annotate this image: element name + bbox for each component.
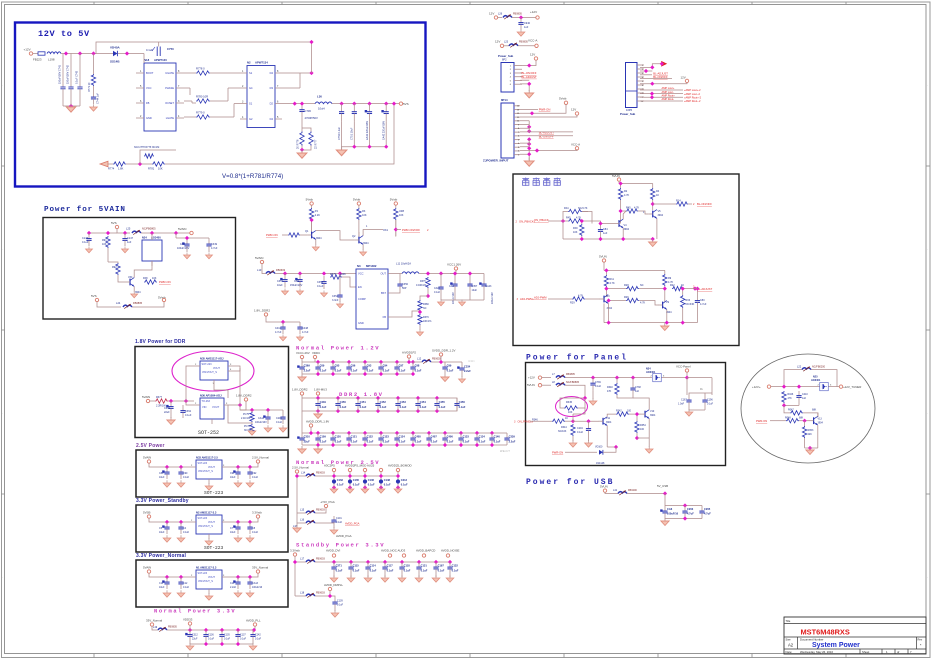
capacitor CA13 bbox=[247, 577, 252, 589]
pin bbox=[394, 202, 397, 205]
wire bbox=[297, 522, 306, 524]
svg-text:3.3V Power_Standby: 3.3V Power_Standby bbox=[136, 498, 189, 504]
junction bbox=[179, 575, 183, 579]
wire bbox=[221, 641, 223, 644]
svg-text:PA4: PA4 bbox=[564, 207, 569, 210]
diode VD40A bbox=[113, 51, 117, 56]
svg-text:CA1: CA1 bbox=[449, 285, 454, 288]
ground Q1 bbox=[312, 245, 319, 251]
ground C99 bbox=[441, 374, 449, 381]
svg-text:4.7uF: 4.7uF bbox=[700, 303, 707, 306]
regulator N36 AP1084-ADJ bbox=[200, 398, 224, 419]
inductor L36 bbox=[315, 102, 332, 104]
wire bbox=[427, 288, 429, 296]
ground 2.5V cap 381 bbox=[377, 486, 385, 493]
junction bbox=[332, 485, 336, 489]
ground C12 bbox=[177, 590, 185, 597]
svg-text:PWR-ON/OFF: PWR-ON/OFF bbox=[402, 228, 420, 232]
svg-text:L23: L23 bbox=[504, 41, 509, 44]
wire bbox=[688, 203, 692, 205]
svg-text:«AMP Rout+-2: «AMP Rout+-2 bbox=[684, 96, 702, 100]
wire bbox=[483, 292, 485, 300]
svg-text:PWR-ON: PWR-ON bbox=[756, 419, 767, 423]
junction bbox=[650, 65, 654, 69]
svg-text:Normal Power 3.3V: Normal Power 3.3V bbox=[154, 609, 236, 615]
svg-text:10uF: 10uF bbox=[277, 284, 283, 287]
capacitor C741 bbox=[60, 54, 65, 107]
svg-text:NC: NC bbox=[423, 307, 427, 310]
svg-text:1uF: 1uF bbox=[802, 397, 807, 400]
resistor PC75 bbox=[250, 412, 254, 422]
svg-text:C99: C99 bbox=[447, 363, 452, 367]
wire to R14 bbox=[653, 203, 676, 205]
pin bbox=[603, 489, 606, 492]
wire tuner mid rail bbox=[784, 404, 799, 406]
svg-text:5V_USB: 5V_USB bbox=[657, 484, 668, 488]
capacitor C92 bbox=[247, 467, 252, 479]
IC N2 pin 1 S1 bbox=[240, 72, 247, 74]
wire jog bbox=[192, 102, 196, 104]
wire bbox=[418, 574, 420, 577]
wire bbox=[350, 574, 352, 577]
capacitor C98 bbox=[410, 362, 415, 374]
section title char 制 bbox=[554, 178, 561, 186]
svg-text:22uF: 22uF bbox=[304, 439, 310, 443]
svg-text:UR8: UR8 bbox=[399, 210, 405, 213]
wire r345 top bbox=[560, 398, 585, 408]
frame zone tick left bbox=[2, 329, 5, 331]
junction bbox=[356, 396, 360, 400]
wire r047 out bbox=[803, 413, 818, 417]
ground CA5 bbox=[297, 289, 304, 295]
frame zone tick bottom bbox=[187, 654, 189, 658]
svg-text:C200: C200 bbox=[276, 417, 282, 420]
highlight ellipse tuner switch bbox=[741, 354, 875, 463]
capacitor C12 bbox=[178, 577, 183, 589]
resistor R379 bbox=[330, 275, 342, 279]
frame zone tick bottom bbox=[845, 654, 847, 658]
svg-text:FB: FB bbox=[146, 101, 150, 105]
junction bbox=[91, 51, 95, 55]
wire ldo out bbox=[228, 518, 258, 522]
junction bbox=[635, 436, 639, 440]
svg-text:C84: C84 bbox=[603, 228, 608, 231]
wire n34 out bbox=[662, 377, 687, 379]
svg-text:4.7uF: 4.7uF bbox=[275, 331, 282, 334]
junction bbox=[439, 271, 443, 275]
ground N33 bbox=[205, 483, 213, 490]
svg-text:AVDD_DVI: AVDD_DVI bbox=[326, 549, 340, 553]
svg-text:R354: R354 bbox=[640, 424, 646, 427]
capacitor C271 bbox=[331, 562, 336, 574]
wire svdd pin bbox=[440, 356, 442, 362]
svg-text:PA5: PA5 bbox=[566, 217, 571, 220]
wire bbox=[652, 200, 654, 210]
svg-text:Power for Panel: Power for Panel bbox=[526, 354, 628, 363]
transistor Q2 3904 bbox=[354, 236, 363, 245]
svg-text:C109: C109 bbox=[320, 434, 327, 438]
junction bbox=[316, 396, 320, 400]
junction bbox=[204, 628, 208, 632]
svg-text:1.8K: 1.8K bbox=[118, 167, 124, 171]
svg-text:AVDD_PLL: AVDD_PLL bbox=[246, 619, 261, 623]
wire left drop dmpll bbox=[294, 562, 296, 596]
ground input caps bbox=[66, 104, 75, 112]
svg-text:56P: 56P bbox=[402, 287, 407, 290]
svg-text:5VAIN: 5VAIN bbox=[142, 395, 150, 399]
svg-text:«AMP Rout--2: «AMP Rout--2 bbox=[684, 99, 701, 103]
junction bbox=[379, 372, 383, 376]
connector 10P6 pin 5 bbox=[637, 80, 644, 82]
connector 8P14 pin 5 bbox=[514, 139, 520, 141]
wire bbox=[184, 87, 190, 89]
wire bbox=[170, 414, 172, 418]
wire return avdd 1.8V bbox=[302, 444, 507, 446]
junction bbox=[363, 360, 367, 364]
pin bbox=[363, 468, 366, 471]
wire bbox=[461, 362, 463, 364]
capacitor C121 bbox=[346, 433, 351, 445]
junction bbox=[331, 431, 335, 435]
svg-text:0.1uF: 0.1uF bbox=[434, 291, 441, 294]
resistor R774 bbox=[113, 162, 126, 166]
wire bottom rail 1 bbox=[563, 238, 653, 240]
svg-text:C406: C406 bbox=[447, 434, 454, 438]
svg-text:R377: R377 bbox=[156, 396, 163, 399]
ground panel caps bbox=[685, 409, 693, 416]
svg-text:C339: C339 bbox=[509, 434, 516, 438]
capacitor C736 bbox=[299, 104, 304, 118]
wire r-pair top bbox=[302, 128, 311, 132]
wire bbox=[334, 608, 336, 611]
transistor V34 3904 bbox=[126, 278, 135, 287]
junction bbox=[363, 474, 367, 478]
capacitor body dot bbox=[348, 479, 352, 483]
svg-text:VIN/VOUT_S: VIN/VOUT_S bbox=[198, 470, 213, 473]
ground avdd row a bbox=[298, 446, 306, 453]
capacitor C89 bbox=[162, 467, 169, 479]
wire usb drop bbox=[664, 494, 666, 506]
wire bbox=[297, 512, 306, 514]
svg-text:C115: C115 bbox=[353, 563, 360, 567]
resistor R780 bbox=[196, 99, 210, 103]
svg-text:C117: C117 bbox=[387, 563, 394, 567]
svg-text:5VAIN: 5VAIN bbox=[255, 256, 263, 260]
wire V9 emitter bbox=[666, 309, 668, 322]
wire to 5Vstb bbox=[132, 302, 164, 308]
wire usb return bbox=[665, 518, 702, 520]
wire bbox=[413, 361, 422, 363]
svg-text:L15: L15 bbox=[300, 509, 305, 512]
wire bbox=[704, 407, 706, 410]
junction bbox=[797, 385, 801, 389]
svg-text:N36 AP1084-ADJ: N36 AP1084-ADJ bbox=[200, 394, 222, 398]
svg-text:R053: R053 bbox=[808, 429, 814, 432]
svg-text:N33 AMS1117-2.5: N33 AMS1117-2.5 bbox=[196, 456, 218, 460]
junction bbox=[347, 372, 351, 376]
svg-text:N18: N18 bbox=[144, 58, 150, 62]
frame zone tick bottom bbox=[93, 654, 95, 658]
junction bbox=[615, 376, 619, 380]
connector 8P2 pin 4 bbox=[514, 76, 522, 78]
junction bbox=[384, 145, 388, 149]
wire bbox=[798, 402, 800, 405]
junction bbox=[527, 63, 531, 67]
svg-text:R778 0: R778 0 bbox=[196, 67, 205, 71]
svg-text:A2: A2 bbox=[788, 643, 794, 648]
wire 5VAIN drop bbox=[262, 264, 266, 274]
svg-text:0.1uF: 0.1uF bbox=[183, 476, 190, 479]
wire bbox=[401, 574, 403, 577]
capacitor CA5 bbox=[295, 274, 302, 288]
junction bbox=[236, 575, 240, 579]
svg-text:C122: C122 bbox=[367, 434, 374, 438]
svg-text:12V: 12V bbox=[495, 40, 500, 44]
svg-text:C165: C165 bbox=[353, 478, 360, 482]
svg-text:10uF: 10uF bbox=[472, 289, 478, 292]
svg-text:SOT-223: SOT-223 bbox=[198, 572, 208, 575]
junction bbox=[453, 271, 457, 275]
wire diode out bbox=[603, 447, 616, 452]
wire bbox=[687, 377, 712, 379]
svg-text:S1: S1 bbox=[249, 102, 253, 106]
junction bbox=[363, 485, 367, 489]
svg-text:10uF: 10uF bbox=[159, 531, 165, 534]
frame zone tick left bbox=[2, 165, 5, 167]
IC N2 pin 4 G2 bbox=[240, 118, 247, 120]
wire bbox=[314, 359, 316, 363]
svg-text:5Vstb: 5Vstb bbox=[390, 198, 398, 202]
pin bbox=[324, 504, 327, 507]
ground C4 bbox=[177, 535, 185, 542]
junction bbox=[150, 231, 154, 235]
ground C14 bbox=[234, 590, 242, 597]
ferrite bead L41 bbox=[618, 491, 627, 496]
svg-text:0.1uF: 0.1uF bbox=[183, 586, 190, 589]
wire bbox=[620, 184, 622, 189]
svg-text:W.E.O.T: W.E.O.T bbox=[500, 449, 510, 453]
junction bbox=[352, 145, 356, 149]
resistor R380 bbox=[418, 300, 422, 311]
svg-text:VCC: VCC bbox=[358, 272, 364, 276]
svg-text:L26: L26 bbox=[498, 13, 503, 16]
diode VD100 bbox=[599, 450, 603, 455]
frame zone tick top bbox=[751, 2, 753, 5]
pin bbox=[564, 101, 567, 104]
svg-text:C91: C91 bbox=[230, 472, 235, 475]
wire bbox=[353, 122, 355, 147]
regulator N1 AMS1117-3.3 bbox=[196, 570, 222, 589]
svg-text:C362: C362 bbox=[185, 410, 192, 413]
svg-text:A3C2P5: A3C2P5 bbox=[324, 464, 335, 468]
wire 8P2 pin1 bbox=[522, 60, 536, 66]
wire rail stb33 bbox=[315, 561, 450, 563]
ground out caps bbox=[459, 300, 466, 306]
svg-text:0.1uF: 0.1uF bbox=[415, 368, 422, 372]
svg-text:SOT-223: SOT-223 bbox=[198, 462, 208, 465]
wire bottom rail lower bbox=[604, 322, 697, 324]
wire Q1 to Q2 base bbox=[316, 231, 355, 240]
capacitor C134 bbox=[474, 433, 479, 445]
junction bbox=[179, 520, 183, 524]
wire bbox=[588, 421, 590, 424]
svg-text:C310: C310 bbox=[304, 434, 311, 438]
svg-text:100uF/16: 100uF/16 bbox=[667, 511, 679, 515]
ground 2.5V cap 334 bbox=[330, 486, 338, 493]
resistor R781 bbox=[152, 162, 165, 166]
junction bbox=[644, 69, 648, 73]
svg-text:VIN: VIN bbox=[202, 405, 206, 409]
capacitor C7 bbox=[233, 522, 240, 534]
wire bbox=[210, 116, 234, 118]
junction bbox=[475, 431, 479, 435]
wire 33V normal bbox=[152, 626, 158, 630]
ground C139 bbox=[331, 610, 339, 617]
capacitor C84 bbox=[598, 225, 603, 236]
connector 8P14 pin 2 bbox=[514, 150, 520, 152]
svg-text:L17: L17 bbox=[300, 558, 305, 561]
wire bbox=[696, 289, 698, 295]
svg-text:0.1uF: 0.1uF bbox=[336, 521, 343, 524]
svg-text:PWR-ON: PWR-ON bbox=[552, 451, 563, 455]
pin bbox=[407, 355, 410, 358]
ground backlight upper bbox=[649, 239, 657, 246]
svg-text:«AMP Lout+-2: «AMP Lout+-2 bbox=[684, 88, 701, 92]
svg-text:0.1uF: 0.1uF bbox=[439, 405, 446, 409]
svg-text:BL-ON/OFF: BL-ON/OFF bbox=[697, 202, 712, 206]
IC N35 pin 4 bbox=[228, 370, 234, 372]
wire bbox=[621, 210, 626, 212]
capacitor C196 bbox=[702, 395, 707, 407]
junction bbox=[527, 142, 531, 146]
svg-text:1uF: 1uF bbox=[127, 241, 132, 244]
pin bbox=[293, 553, 296, 556]
svg-text:0.1uF: 0.1uF bbox=[401, 483, 408, 487]
pin +12V input bbox=[29, 52, 32, 55]
svg-text:10K: 10K bbox=[568, 411, 573, 414]
svg-text:C80: C80 bbox=[700, 299, 705, 302]
junction bbox=[663, 287, 667, 291]
junction bbox=[78, 51, 82, 55]
svg-text:C90: C90 bbox=[183, 472, 188, 475]
junction bbox=[184, 399, 188, 403]
wire bbox=[469, 274, 471, 279]
svg-text:N35 AMS1117-ADJ: N35 AMS1117-ADJ bbox=[200, 357, 224, 361]
wire V10 collector bbox=[633, 398, 649, 410]
svg-text:Title: Title bbox=[786, 619, 791, 623]
junction bbox=[651, 202, 655, 206]
junction bbox=[519, 15, 523, 19]
svg-text:C140: C140 bbox=[494, 434, 501, 438]
svg-text:Wednesday, May 26, 2010: Wednesday, May 26, 2010 bbox=[800, 650, 833, 654]
svg-text:C360: C360 bbox=[164, 407, 171, 410]
svg-text:C453: C453 bbox=[400, 400, 407, 404]
wire bl-adjust ext bbox=[538, 131, 573, 133]
wire bbox=[310, 427, 312, 433]
capacitor EA41 bbox=[365, 104, 372, 122]
svg-text:MP1482: MP1482 bbox=[366, 264, 377, 268]
svg-text:0.1uF: 0.1uF bbox=[383, 439, 390, 443]
capacitor C742 bbox=[68, 54, 73, 107]
ground C354 bbox=[337, 302, 344, 308]
junction bbox=[527, 82, 531, 86]
svg-text:1.8V_DDR2: 1.8V_DDR2 bbox=[254, 309, 270, 313]
svg-text:SOT-223: SOT-223 bbox=[204, 490, 224, 496]
svg-text:VDDC: VDDC bbox=[312, 351, 320, 355]
junction bbox=[435, 396, 439, 400]
pin bbox=[253, 623, 256, 626]
svg-text:0.1uF: 0.1uF bbox=[400, 405, 407, 409]
wire pa4 join bbox=[582, 212, 592, 224]
ferrite bead L14 bbox=[306, 473, 315, 478]
capacitor C4 bbox=[178, 522, 183, 534]
junction bbox=[248, 575, 252, 579]
svg-text:C162: C162 bbox=[337, 478, 344, 482]
junction bbox=[298, 271, 302, 275]
svg-text:0.1uF: 0.1uF bbox=[452, 568, 459, 572]
section box 2.5V Power bbox=[136, 450, 288, 497]
svg-text:FB223: FB223 bbox=[33, 58, 42, 62]
capacitor C90 bbox=[178, 467, 183, 479]
wire right drop bbox=[711, 378, 713, 395]
svg-text:C139: C139 bbox=[337, 600, 343, 603]
resistor R047 bbox=[790, 411, 803, 415]
wire bbox=[603, 262, 605, 270]
ferrite bead L16 bbox=[306, 520, 315, 525]
capacitor C940 bbox=[518, 18, 523, 30]
wire en bbox=[342, 277, 356, 287]
svg-text:R342: R342 bbox=[616, 410, 622, 413]
svg-text:68K: 68K bbox=[812, 409, 817, 412]
svg-text:C12: C12 bbox=[183, 582, 188, 585]
svg-text:0.1uF: 0.1uF bbox=[336, 568, 343, 572]
wire bbox=[237, 641, 239, 644]
wire emitter Q1 bbox=[315, 239, 317, 245]
connector 8P14 pin 9 bbox=[514, 124, 520, 126]
svg-text:22uF: 22uF bbox=[192, 638, 198, 641]
svg-text:1uF: 1uF bbox=[635, 390, 640, 393]
IC N18 pin 1 BOOT bbox=[136, 72, 144, 74]
svg-text:1.8V_DDR2: 1.8V_DDR2 bbox=[236, 394, 252, 398]
svg-text:C98: C98 bbox=[415, 363, 420, 367]
svg-text:3904: 3904 bbox=[650, 414, 656, 417]
svg-text:VOUT: VOUT bbox=[213, 367, 220, 370]
wire to R92 bbox=[108, 262, 118, 263]
capacitor C5 bbox=[162, 522, 169, 534]
ground output caps bbox=[336, 146, 346, 155]
wire return bbox=[441, 299, 484, 301]
junction bbox=[426, 294, 430, 298]
wire 5VS to L24 bbox=[97, 302, 121, 308]
wire V5 emitter bbox=[656, 218, 658, 239]
ground V34 bbox=[131, 292, 138, 298]
wire bbox=[333, 526, 335, 528]
junction bbox=[693, 287, 697, 291]
pin bbox=[439, 353, 442, 356]
junction bbox=[782, 385, 786, 389]
capacitor C115 bbox=[348, 562, 353, 574]
svg-text:AMP Lout-: AMP Lout- bbox=[662, 90, 674, 94]
svg-text:MST6M48RXS: MST6M48RXS bbox=[801, 628, 850, 637]
svg-text:1K: 1K bbox=[565, 417, 568, 420]
svg-text:68K: 68K bbox=[799, 416, 804, 419]
junction bbox=[400, 560, 404, 564]
junction bbox=[683, 503, 687, 507]
pin bbox=[767, 385, 770, 388]
svg-text:5VS: 5VS bbox=[91, 294, 97, 298]
svg-text:8P14: 8P14 bbox=[501, 98, 508, 102]
svg-text:0.1uF: 0.1uF bbox=[383, 368, 390, 372]
